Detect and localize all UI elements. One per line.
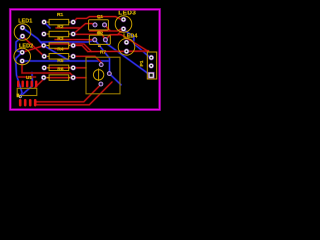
svg-text:U1: U1 <box>26 75 33 81</box>
svg-text:LED4: LED4 <box>123 34 137 40</box>
svg-text:LED2: LED2 <box>19 44 33 50</box>
svg-text:C2: C2 <box>97 31 104 37</box>
svg-text:R6: R6 <box>57 67 64 73</box>
svg-text:R5: R5 <box>57 58 64 64</box>
svg-text:C1: C1 <box>97 14 104 20</box>
svg-text:R2: R2 <box>57 24 64 30</box>
svg-text:R7: R7 <box>100 49 107 55</box>
svg-text:P1: P1 <box>139 60 145 66</box>
svg-text:R4: R4 <box>57 46 64 52</box>
svg-text:R3: R3 <box>57 36 64 42</box>
svg-text:R1: R1 <box>57 12 64 18</box>
svg-text:LED1: LED1 <box>18 19 32 25</box>
